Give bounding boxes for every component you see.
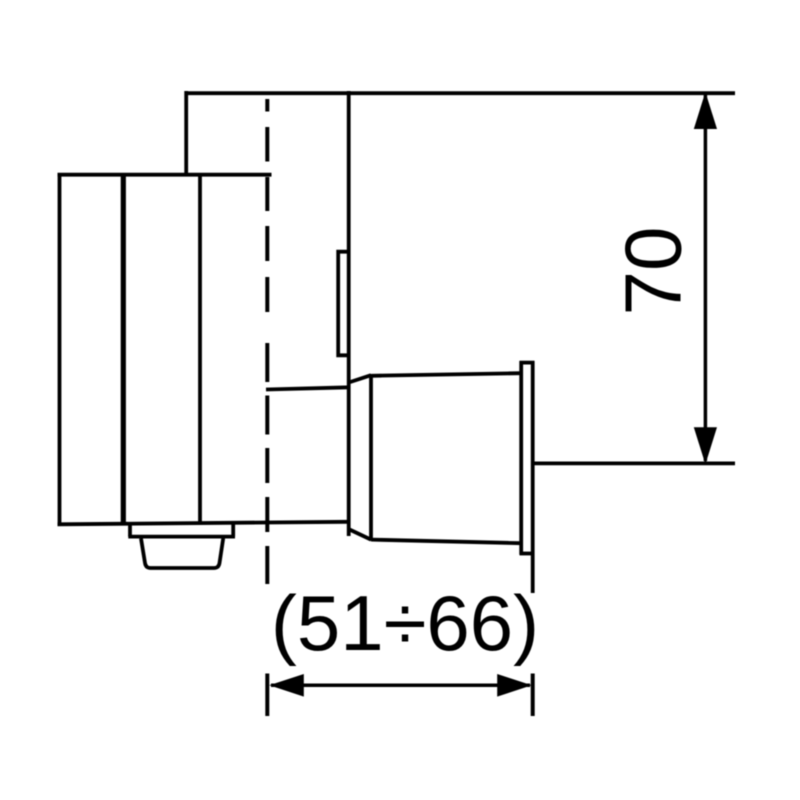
node nozzle step bottom	[128, 535, 235, 539]
wire cone bottom chamfer	[350, 530, 372, 540]
wire cone bottom edge	[371, 540, 521, 544]
svg-text:70: 70	[609, 227, 698, 316]
wire centerline dashed	[265, 99, 269, 584]
node arrowhead down of dimension 70	[694, 427, 717, 464]
wire top outline line	[185, 91, 736, 95]
wire body bottom edge	[58, 522, 349, 525]
wire body middle vertical edge	[198, 175, 202, 524]
svg-text:(51÷66): (51÷66)	[271, 579, 539, 667]
wire centerline lower solid extension	[265, 674, 269, 717]
wire flange right edge	[531, 361, 535, 593]
wire flange top cap	[520, 361, 535, 365]
wire body thick vertical edge	[121, 175, 126, 524]
wire dimension 51-66 horizontal line	[271, 684, 530, 688]
wire dimension 70 vertical line	[704, 95, 708, 461]
wire right extension line lower	[531, 674, 535, 717]
wire cone top edge	[371, 373, 521, 376]
wire seam line	[266, 387, 350, 389]
node arrowhead left of dimension 51-66	[269, 674, 304, 697]
wire body top edge	[58, 173, 272, 177]
wire body left edge	[58, 173, 62, 526]
wire top-left vertical edge	[184, 91, 188, 177]
wire dimension 70 reference line	[533, 461, 735, 465]
wire neck vertical edge	[347, 91, 351, 536]
node nozzle trapezoid	[141, 538, 223, 568]
node small side rectangle	[338, 252, 349, 356]
node nozzle step left	[128, 524, 132, 537]
wire flange left edge	[519, 361, 523, 555]
node arrowhead right of dimension 51-66	[497, 674, 532, 697]
wire cone left edge	[369, 374, 373, 541]
wire cone top chamfer	[349, 375, 371, 382]
node arrowhead up of dimension 70	[694, 92, 717, 129]
wire flange bottom cap	[520, 552, 535, 556]
node nozzle step right	[231, 524, 235, 537]
